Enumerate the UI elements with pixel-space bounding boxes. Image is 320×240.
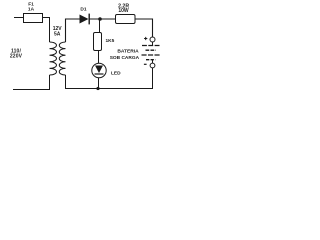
wire LED to bottom rail xyxy=(98,78,100,89)
wire secondary top lead xyxy=(66,19,80,42)
wire terminal to plates xyxy=(152,42,154,46)
label 1K5 xyxy=(106,38,115,44)
svg-text:LED: LED xyxy=(111,71,121,77)
label 2.2R xyxy=(118,3,129,9)
label 1A xyxy=(28,7,35,13)
wire diode to node xyxy=(89,18,116,20)
wire fuse to primary xyxy=(43,18,50,43)
label plus xyxy=(144,37,147,40)
svg-text:10W: 10W xyxy=(118,8,129,14)
wire input top lead xyxy=(14,17,24,19)
battery plus terminal xyxy=(150,37,155,42)
label minus xyxy=(144,63,147,65)
LED D2 xyxy=(92,63,106,77)
diode D1 xyxy=(80,14,90,25)
battery BT1 plates xyxy=(142,46,161,64)
node junction top xyxy=(98,17,102,21)
resistor 1K5 xyxy=(94,33,102,51)
label 10W xyxy=(118,8,129,14)
wire secondary bottom lead xyxy=(66,75,99,89)
battery minus terminal xyxy=(150,63,155,68)
transformer T1 primary winding xyxy=(50,42,57,75)
transformer T1 secondary winding xyxy=(59,42,65,75)
wire resistor to battery plus xyxy=(135,19,153,37)
label 5A xyxy=(54,32,61,38)
svg-text:D1: D1 xyxy=(80,7,86,13)
svg-text:1K5: 1K5 xyxy=(106,38,115,44)
wire node to resistor 1K5 xyxy=(99,19,101,33)
label BATERIA SOB CARGA xyxy=(110,48,140,60)
label D1 xyxy=(80,7,86,13)
wire battery to bottom rail xyxy=(98,68,153,89)
svg-text:BATERIA: BATERIA xyxy=(117,48,139,54)
fuse F1 xyxy=(24,14,43,23)
wire resistor to LED xyxy=(98,51,100,64)
svg-text:SOB CARGA: SOB CARGA xyxy=(110,55,140,61)
svg-text:220V: 220V xyxy=(10,54,23,60)
label LED xyxy=(111,71,121,77)
label F1 xyxy=(28,2,34,8)
svg-text:5A: 5A xyxy=(54,32,61,38)
svg-text:1A: 1A xyxy=(28,7,35,13)
resistor 2.2R xyxy=(116,15,136,24)
wire primary bottom lead xyxy=(13,75,50,90)
label 12V xyxy=(53,26,63,32)
label 110/220V xyxy=(10,49,23,60)
node junction bottom xyxy=(96,87,99,90)
